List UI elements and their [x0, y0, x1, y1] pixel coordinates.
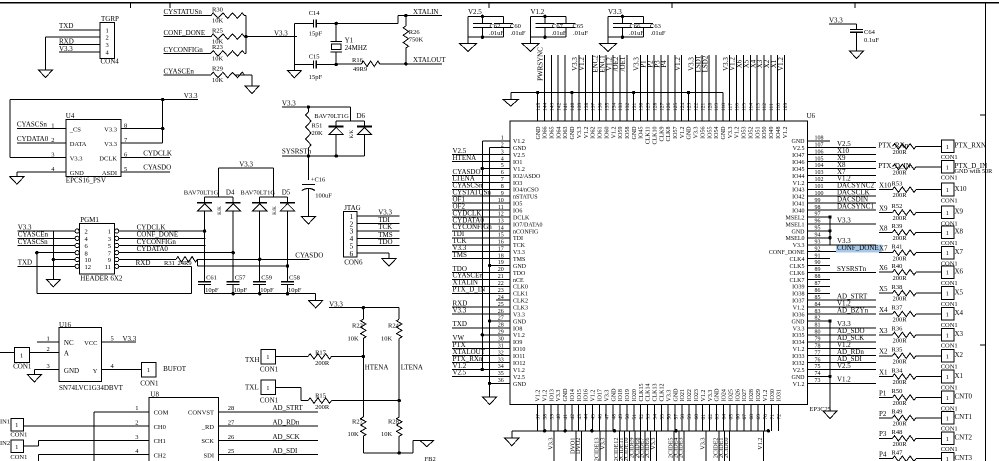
svg-text:135: 135: [604, 103, 610, 112]
svg-text:1: 1: [266, 385, 269, 392]
svg-text:118: 118: [721, 103, 727, 111]
svg-text:IO25: IO25: [728, 389, 734, 401]
svg-text:V3.3: V3.3: [604, 390, 610, 402]
svg-text:CYSTATUSn: CYSTATUSn: [164, 8, 203, 16]
svg-text:130: 130: [639, 103, 645, 112]
svg-text:V3.3: V3.3: [513, 250, 525, 256]
svg-text:X1: X1: [955, 372, 964, 380]
svg-text:106: 106: [815, 149, 824, 155]
svg-text:R40: R40: [892, 263, 903, 270]
svg-text:V1.2: V1.2: [735, 127, 741, 139]
svg-text:131: 131: [632, 103, 638, 112]
svg-text:IO35: IO35: [792, 333, 804, 339]
svg-text:P2: P2: [879, 410, 887, 418]
svg-text:CYASDO: CYASDO: [295, 252, 323, 260]
svg-text:CNT1: CNT1: [955, 413, 973, 421]
svg-text:R26: R26: [409, 29, 421, 36]
svg-text:46: 46: [598, 414, 604, 420]
svg-text:V2.5: V2.5: [513, 375, 525, 381]
svg-text:V3.3: V3.3: [513, 312, 525, 318]
svg-text:1: 1: [147, 367, 150, 374]
svg-text:CLK10: CLK10: [652, 127, 658, 145]
svg-text:200R: 200R: [893, 235, 908, 242]
svg-text:1: 1: [946, 436, 949, 443]
svg-text:2: 2: [106, 35, 109, 42]
svg-text:TDO: TDO: [378, 238, 392, 246]
svg-text:91: 91: [815, 253, 821, 259]
svg-text:CLK9: CLK9: [659, 127, 665, 142]
svg-text:V3.3: V3.3: [694, 127, 700, 139]
svg-text:58: 58: [680, 414, 686, 420]
svg-text:.01uF: .01uF: [511, 30, 526, 37]
svg-text:45: 45: [591, 414, 597, 420]
svg-text:CON1: CON1: [140, 379, 159, 387]
svg-text:K/K: K/K: [218, 206, 223, 215]
svg-text:CLK4: CLK4: [790, 257, 805, 263]
svg-text:IO64: IO64: [556, 127, 562, 139]
svg-text:CNT2: CNT2: [955, 434, 973, 442]
svg-text:69: 69: [756, 414, 762, 420]
svg-text:TDO: TDO: [513, 271, 526, 277]
svg-text:99: 99: [815, 198, 821, 204]
svg-text:IO62: IO62: [591, 127, 597, 139]
svg-text:R15: R15: [315, 392, 326, 399]
svg-text:IO60: IO60: [604, 127, 610, 139]
svg-text:V3.3: V3.3: [282, 99, 296, 107]
svg-text:1: 1: [946, 230, 949, 237]
svg-text:IO57: IO57: [673, 127, 679, 139]
svg-text:1: 1: [946, 332, 949, 339]
svg-text:P1: P1: [879, 389, 887, 397]
svg-text:V1.2: V1.2: [793, 382, 805, 388]
svg-text:139: 139: [577, 103, 583, 112]
svg-text:64: 64: [722, 414, 728, 420]
svg-text:IO31: IO31: [777, 389, 783, 401]
svg-text:X7: X7: [955, 248, 964, 256]
svg-text:SDI: SDI: [204, 453, 214, 460]
svg-text:CON1: CON1: [941, 322, 958, 329]
svg-text:GND: GND: [715, 388, 721, 402]
svg-text:U6: U6: [807, 112, 816, 120]
svg-text:24R9: 24R9: [178, 260, 192, 267]
svg-text:P4: P4: [879, 451, 887, 459]
svg-text:V1.2: V1.2: [793, 347, 805, 353]
svg-text:R52: R52: [892, 203, 903, 210]
svg-text:111: 111: [769, 103, 775, 111]
svg-text:R38: R38: [892, 284, 903, 291]
svg-text:.01uF: .01uF: [573, 30, 588, 37]
svg-text:96: 96: [815, 219, 821, 225]
svg-text:IO50: IO50: [762, 127, 768, 139]
svg-text:1: 1: [946, 395, 949, 402]
svg-text:BAV70LT1G: BAV70LT1G: [184, 189, 219, 196]
svg-text:X10: X10: [955, 185, 968, 193]
svg-text:R39: R39: [892, 223, 903, 230]
svg-text:IO2/ASDO: IO2/ASDO: [513, 174, 541, 180]
svg-text:X5: X5: [955, 288, 964, 296]
svg-text:V1.2: V1.2: [513, 368, 525, 374]
svg-text:AD_SCK: AD_SCK: [837, 334, 864, 342]
svg-text:IO16: IO16: [584, 389, 590, 401]
svg-text:IO30: IO30: [770, 389, 776, 401]
svg-text:V1.2: V1.2: [763, 390, 769, 402]
svg-text:GND: GND: [792, 139, 806, 145]
svg-text:TXL: TXL: [245, 384, 259, 392]
svg-text:TGRP: TGRP: [101, 15, 119, 23]
svg-text:X2: X2: [955, 351, 964, 359]
svg-text:1: 1: [946, 270, 949, 277]
svg-text:1: 1: [266, 354, 269, 361]
svg-text:CLK3: CLK3: [513, 306, 528, 312]
svg-text:IO33: IO33: [792, 354, 804, 360]
svg-text:XTALIN: XTALIN: [413, 8, 439, 16]
svg-text:5: 5: [108, 243, 111, 250]
svg-text:X9: X9: [879, 204, 888, 212]
svg-text:CH0: CH0: [154, 424, 166, 431]
svg-text:144: 144: [543, 103, 549, 112]
svg-text:102: 102: [815, 177, 824, 183]
svg-text:CON1: CON1: [941, 197, 958, 204]
svg-text:41: 41: [563, 414, 569, 420]
svg-text:X4: X4: [879, 306, 888, 314]
svg-text:V3.3: V3.3: [650, 438, 657, 450]
svg-text:71: 71: [770, 414, 776, 420]
svg-text:CYASDO: CYASDO: [143, 164, 171, 172]
svg-text:1: 1: [51, 122, 54, 129]
svg-text:GND: GND: [513, 264, 527, 270]
svg-text:CLK14: CLK14: [646, 384, 652, 402]
svg-text:10pF: 10pF: [288, 287, 302, 294]
svg-text:2: 2: [51, 137, 54, 144]
svg-text:X8: X8: [955, 228, 964, 236]
svg-text:PGM1: PGM1: [80, 216, 99, 224]
svg-text:100: 100: [815, 191, 824, 197]
svg-text:V3.3: V3.3: [793, 326, 805, 332]
svg-text:10K: 10K: [212, 18, 224, 25]
svg-text:122: 122: [694, 103, 700, 112]
svg-text:49: 49: [618, 414, 624, 420]
svg-text:CON1: CON1: [260, 396, 279, 404]
svg-text:1: 1: [946, 374, 949, 381]
svg-text:/OE1: /OE1: [619, 56, 627, 71]
svg-text:39: 39: [549, 414, 555, 420]
svg-text:121: 121: [700, 103, 706, 112]
svg-text:10K: 10K: [212, 77, 224, 84]
svg-text:R35: R35: [892, 347, 903, 354]
svg-text:D6: D6: [357, 112, 366, 120]
svg-text:CON1: CON1: [260, 366, 279, 374]
svg-text:LTENA: LTENA: [401, 364, 423, 372]
svg-text:V2.5: V2.5: [453, 369, 467, 377]
svg-text:66: 66: [735, 414, 741, 420]
svg-text:C14: C14: [309, 10, 321, 17]
svg-text:27: 27: [228, 420, 235, 427]
svg-text:V1.2: V1.2: [542, 390, 548, 402]
svg-text:70: 70: [763, 414, 769, 420]
svg-text:GND: GND: [64, 367, 79, 375]
svg-text:TMS: TMS: [453, 251, 468, 259]
svg-text:CYASCSn: CYASCSn: [18, 238, 48, 246]
svg-text:90: 90: [815, 260, 821, 266]
svg-text:200R: 200R: [893, 317, 908, 324]
svg-text:CONF_DONE: CONF_DONE: [769, 250, 805, 256]
svg-text:CON1: CON1: [10, 454, 27, 461]
svg-text:77: 77: [815, 350, 821, 356]
svg-text:V1.2: V1.2: [584, 127, 590, 139]
svg-text:124: 124: [680, 103, 686, 112]
svg-text:IO66: IO66: [543, 127, 549, 139]
svg-text:42: 42: [570, 414, 576, 420]
svg-text:.01uF: .01uF: [651, 30, 666, 37]
svg-text:V1.2: V1.2: [701, 390, 707, 402]
svg-text:GND with 50R: GND with 50R: [955, 168, 994, 175]
svg-text:CONF_DONE: CONF_DONE: [164, 29, 206, 37]
svg-text:79: 79: [815, 337, 821, 343]
svg-text:IO19: IO19: [625, 389, 631, 401]
svg-text:109: 109: [783, 103, 789, 112]
svg-text:0.1uF: 0.1uF: [864, 37, 879, 44]
svg-text:K/K: K/K: [273, 206, 278, 215]
svg-text:200R: 200R: [315, 360, 330, 367]
svg-text:C15: C15: [309, 53, 320, 60]
svg-text:BUFOT: BUFOT: [163, 365, 187, 373]
svg-text:73: 73: [815, 378, 821, 384]
svg-text:D5: D5: [282, 188, 291, 196]
svg-text:145: 145: [536, 103, 542, 112]
svg-text:SYSRSTn: SYSRSTn: [837, 265, 867, 273]
svg-text:200R: 200R: [893, 275, 908, 282]
svg-text:103: 103: [815, 170, 824, 176]
svg-text:3: 3: [108, 236, 111, 243]
svg-text:IO23: IO23: [694, 389, 700, 401]
svg-text:57: 57: [673, 414, 679, 420]
svg-text:750K: 750K: [409, 36, 424, 43]
svg-text:X6: X6: [879, 264, 888, 272]
svg-text:GND: GND: [563, 388, 569, 402]
svg-text:200R: 200R: [893, 255, 908, 262]
svg-text:V1.2: V1.2: [783, 127, 789, 139]
svg-text:CYDCLK: CYDCLK: [143, 149, 172, 157]
svg-text:IO65: IO65: [550, 127, 556, 139]
svg-text:V3.3: V3.3: [577, 127, 583, 139]
svg-text:2CIDE0: 2CIDE0: [723, 438, 730, 459]
svg-text:84: 84: [815, 302, 821, 308]
svg-text:62: 62: [708, 414, 714, 420]
svg-text:V3.3: V3.3: [104, 127, 117, 134]
svg-text:V3.3: V3.3: [728, 127, 734, 139]
svg-text:R37: R37: [892, 305, 904, 312]
svg-text:AD_SCK: AD_SCK: [273, 433, 300, 441]
svg-text:IO5: IO5: [513, 202, 522, 208]
svg-text:2: 2: [47, 346, 50, 353]
svg-text:GND: GND: [513, 382, 527, 388]
svg-text:VCC: VCC: [84, 340, 97, 347]
svg-text:20K: 20K: [312, 130, 324, 137]
svg-text:15pF: 15pF: [309, 74, 323, 81]
svg-text:76: 76: [815, 357, 821, 363]
svg-text:TXD: TXD: [18, 259, 32, 267]
svg-text:48: 48: [611, 414, 617, 420]
svg-text:142: 142: [556, 103, 562, 112]
svg-text:IO63: IO63: [563, 127, 569, 139]
svg-text:D4: D4: [226, 188, 235, 196]
svg-text:72: 72: [777, 414, 783, 420]
svg-text:DCLK: DCLK: [513, 215, 530, 221]
svg-text:60: 60: [694, 414, 700, 420]
svg-text:IO45: IO45: [792, 167, 804, 173]
svg-text:1: 1: [108, 229, 111, 236]
svg-text:K/K: K/K: [350, 129, 355, 138]
svg-text:200R: 200R: [893, 296, 908, 303]
svg-text:83: 83: [815, 309, 821, 315]
svg-text:CLK0: CLK0: [513, 285, 528, 291]
svg-text:V2.5: V2.5: [793, 146, 805, 152]
svg-text:IO44: IO44: [792, 174, 804, 180]
svg-text:12: 12: [85, 264, 92, 271]
svg-text:108: 108: [815, 136, 824, 142]
svg-text:IO48: IO48: [776, 127, 782, 139]
svg-text:40: 40: [556, 414, 562, 420]
svg-text:10K: 10K: [348, 336, 360, 343]
svg-text:IO45: IO45: [639, 127, 645, 139]
svg-text:V1.2: V1.2: [578, 57, 586, 71]
svg-text:V1.2: V1.2: [793, 181, 805, 187]
svg-text:89: 89: [815, 267, 821, 273]
svg-text:65: 65: [728, 414, 734, 420]
svg-text:C64: C64: [864, 29, 876, 36]
svg-text:141: 141: [563, 103, 569, 112]
svg-text:V3.3: V3.3: [600, 438, 607, 450]
svg-text:P3: P3: [879, 430, 887, 438]
svg-text:IO47: IO47: [792, 153, 804, 159]
svg-text:53: 53: [646, 414, 652, 420]
svg-text:RXD: RXD: [136, 259, 151, 267]
svg-text:50: 50: [625, 414, 631, 420]
svg-text:X4: X4: [955, 309, 964, 317]
svg-text:97: 97: [815, 212, 821, 218]
svg-text:AD_SDI: AD_SDI: [273, 447, 299, 455]
svg-text:V3.3: V3.3: [239, 160, 253, 168]
svg-text:SN74LVC1G34DBVT: SN74LVC1G34DBVT: [59, 384, 124, 392]
svg-text:74: 74: [815, 371, 821, 377]
svg-text:68: 68: [749, 414, 755, 420]
svg-text:X1: X1: [879, 369, 888, 377]
svg-text:200R: 200R: [893, 441, 908, 448]
svg-text:88: 88: [815, 274, 821, 280]
svg-text:R51: R51: [312, 123, 323, 130]
svg-text:.01uF: .01uF: [489, 30, 504, 37]
svg-text:137: 137: [591, 103, 597, 112]
svg-text:SYSRSTn: SYSRSTn: [282, 148, 312, 156]
svg-text:3: 3: [106, 42, 109, 49]
svg-text:200R: 200R: [893, 421, 908, 428]
svg-text:X6: X6: [955, 267, 964, 275]
svg-text:V3.3: V3.3: [453, 306, 467, 314]
svg-text:V2.5: V2.5: [837, 140, 851, 148]
svg-text:V3.3: V3.3: [837, 216, 851, 224]
svg-text:IO55: IO55: [707, 127, 713, 139]
svg-text:AD_STRT: AD_STRT: [273, 404, 304, 412]
svg-text:C58: C58: [289, 274, 300, 281]
svg-text:GND: GND: [673, 388, 679, 402]
svg-text:X10: X10: [879, 182, 892, 190]
svg-text:200R: 200R: [893, 338, 908, 345]
svg-text:59: 59: [687, 414, 693, 420]
svg-text:IO43: IO43: [792, 188, 804, 194]
svg-text:FB2: FB2: [425, 456, 436, 461]
svg-text:IO20: IO20: [632, 389, 638, 401]
svg-text:X3: X3: [955, 330, 964, 338]
svg-text:IO51: IO51: [755, 127, 761, 139]
svg-text:10pF: 10pF: [260, 287, 274, 294]
svg-text:56: 56: [666, 414, 672, 420]
svg-text:CNT3: CNT3: [955, 454, 973, 461]
svg-text:BAV70LT1G: BAV70LT1G: [240, 189, 275, 196]
svg-text:140: 140: [570, 103, 576, 112]
svg-text:200R: 200R: [893, 149, 908, 156]
svg-text:132: 132: [625, 103, 631, 112]
svg-text:10pF: 10pF: [234, 287, 248, 294]
svg-text:V3.3: V3.3: [829, 17, 843, 25]
svg-text:U4: U4: [66, 112, 75, 120]
svg-text:IO14: IO14: [570, 389, 576, 401]
svg-text:MSEL1: MSEL1: [785, 222, 804, 228]
svg-text:+C16: +C16: [311, 176, 326, 183]
svg-text:61: 61: [701, 414, 707, 420]
svg-text:IO18: IO18: [618, 389, 624, 401]
svg-text:R28: R28: [388, 419, 399, 426]
svg-text:DATA: DATA: [70, 141, 87, 148]
svg-text:CLK1: CLK1: [513, 292, 528, 298]
svg-text:IO42: IO42: [792, 195, 804, 201]
svg-text:94: 94: [815, 233, 821, 239]
svg-text:200R: 200R: [893, 192, 908, 199]
svg-text:IO3: IO3: [513, 181, 522, 187]
svg-text:3: 3: [47, 363, 50, 370]
svg-text:R30: R30: [212, 6, 223, 13]
svg-text:CYCONFIGn: CYCONFIGn: [164, 46, 204, 54]
svg-text:IO49: IO49: [769, 127, 775, 139]
svg-text:1: 1: [946, 415, 949, 422]
svg-text:120: 120: [707, 103, 713, 112]
svg-text:V3.3: V3.3: [556, 390, 562, 402]
svg-text:R49: R49: [892, 409, 903, 416]
svg-text:IO40: IO40: [792, 209, 804, 215]
svg-text:133: 133: [618, 103, 624, 112]
svg-text:5: 5: [111, 336, 114, 343]
svg-text:CON1: CON1: [941, 343, 958, 350]
svg-text:V1.2: V1.2: [531, 8, 545, 16]
svg-text:GND: GND: [570, 126, 576, 140]
svg-text:V1.2: V1.2: [837, 376, 851, 384]
svg-text:112: 112: [762, 103, 768, 111]
svg-text:10pF: 10pF: [205, 287, 219, 294]
svg-text:GND: GND: [611, 388, 617, 402]
svg-text:HTENA: HTENA: [365, 364, 389, 372]
svg-text:C57: C57: [235, 274, 247, 281]
svg-text:6: 6: [350, 249, 354, 258]
svg-text:93: 93: [815, 239, 821, 245]
svg-text:51: 51: [632, 414, 638, 420]
svg-text:IO24: IO24: [722, 389, 728, 401]
svg-text:V3.3: V3.3: [104, 141, 117, 148]
svg-text:IO34: IO34: [792, 340, 804, 346]
svg-text:CYASCSn: CYASCSn: [17, 120, 47, 128]
svg-text:MSEL0: MSEL0: [785, 236, 804, 242]
svg-text:TXD: TXD: [453, 320, 467, 328]
svg-text:X8: X8: [879, 224, 888, 232]
svg-text:XTALOUT: XTALOUT: [413, 56, 446, 64]
